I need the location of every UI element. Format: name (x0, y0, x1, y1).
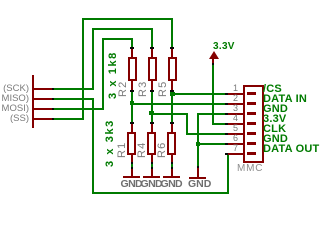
R4 top lead (151, 124, 153, 132)
junction MISO stub/net (52, 98, 54, 100)
node CLK tap (junction dot) (149, 111, 154, 115)
R1 bottom lead (131, 155, 133, 162)
GND4 wire junction (197, 166, 199, 168)
connector MMC pin 1 stub (228, 93, 243, 95)
junction pin4 (225, 123, 228, 125)
wire MOSI riser (inner staple left) (102, 38, 104, 110)
R1 gnd wire (131, 164, 133, 167)
ground bar 4 (189, 177, 206, 179)
junction R3 pin1 (150, 47, 154, 49)
R5 bottom lead (171, 80, 173, 90)
wire MISO horizontal (54, 98, 94, 100)
label (SS) (0, 114, 29, 124)
ground text 3 (161, 180, 183, 189)
value 3 x 1k8 (108, 51, 119, 99)
junction R5 pin1 (170, 47, 174, 49)
R6 top lead (171, 124, 173, 132)
connector pin 4 contact (247, 122, 256, 125)
label MOSI) (0, 104, 29, 114)
wire SCK drop to R3 (151, 28, 153, 48)
pin stub SS (34, 118, 52, 120)
junction R5 pin2 (170, 90, 174, 92)
R4 gnd junction b (151, 167, 153, 169)
wire /CS to pin 1 (171, 93, 225, 95)
ground lead 2 (151, 169, 153, 176)
ground bar 1 (123, 176, 140, 178)
resistor R4 body (147, 132, 156, 155)
wire CLK tap horizontal (151, 113, 188, 115)
R6 top junction (170, 122, 174, 124)
wire CLK to pin 5 (186, 133, 225, 135)
label (SCK) (0, 84, 29, 94)
wire SS drop to R5 (171, 18, 173, 48)
resistor R1 body (127, 132, 136, 155)
wire DATA IN to pin 2 (131, 103, 225, 105)
net label DATA IN (263, 94, 307, 104)
designator R1 (117, 142, 128, 158)
junction pin5 (225, 133, 228, 135)
wire MOSI staple top (102, 38, 133, 40)
wire MOSI drop to R2 (131, 38, 133, 48)
R6 gnd wire (171, 164, 173, 167)
pin number 6 (214, 134, 238, 142)
value 3 x 3k3 (105, 119, 116, 167)
net label GND (pin6) (263, 134, 288, 144)
designator MMC (237, 164, 263, 173)
wire divider chain R3-R4 (151, 92, 153, 123)
R4 gnd wire (151, 164, 153, 167)
junction R3 pin2 (150, 90, 154, 92)
wire SCK staple top (92, 28, 153, 30)
wire MOSI horizontal (54, 108, 104, 110)
ground bar 3 (163, 176, 180, 178)
ground text 2 (141, 180, 163, 189)
wire CLK riser (186, 113, 188, 135)
designator R4 (137, 142, 148, 158)
ground bar 2 (143, 176, 160, 178)
label 3.3V (213, 42, 235, 51)
R6 gnd junction b (171, 167, 173, 169)
wire SCK riser (middle staple left) (92, 28, 94, 90)
wire divider chain R2-R1 (131, 92, 133, 123)
wire MISO drop (loop left) (92, 98, 94, 194)
resistor R6 body (167, 132, 176, 155)
wire 3.3V to pin 4 (212, 123, 225, 125)
wire MISO bottom run (92, 192, 229, 194)
designator R6 (157, 142, 168, 158)
wire 3.3V vertical (212, 65, 214, 125)
ground lead 3 (171, 169, 173, 176)
R1 gnd junction b (131, 167, 133, 169)
ground lead 1 (131, 169, 133, 176)
connector pin 5 contact (247, 132, 256, 135)
resistor R3 body (148, 57, 157, 81)
R6 gnd junction a (171, 162, 173, 164)
supply 3.3V stem (212, 58, 214, 64)
junction pin3 (225, 113, 228, 115)
designator R5 (158, 81, 169, 97)
node /CS tap (junction dot) (170, 92, 175, 96)
resistor R5 body (168, 57, 177, 81)
ground text 1 (121, 180, 143, 189)
pin number 1 (214, 84, 238, 92)
R5 top lead (171, 49, 173, 57)
designator R3 (138, 81, 149, 97)
connector MMC pin 6 stub (228, 143, 243, 145)
pin stub MOSI (34, 108, 52, 110)
node DATA IN tap (junction dot) (130, 101, 134, 105)
junction pin6 (225, 143, 228, 145)
wire SS horizontal (54, 118, 84, 120)
R1 top lead (131, 124, 133, 132)
ground text 4 (188, 180, 211, 189)
net label GND (pin3) (263, 104, 288, 114)
connector MMC pin 7 stub (228, 153, 243, 155)
wire MISO rise to pin 7 (227, 154, 229, 194)
R4 gnd junction a (151, 162, 153, 164)
wire GND vertical (197, 113, 199, 167)
net label 3.3V (pin4) (263, 114, 286, 124)
R4 bottom lead (151, 155, 153, 162)
R1 top junction (130, 122, 134, 124)
R1 gnd junction a (131, 162, 133, 164)
designator R2 (118, 81, 129, 97)
junction pin7 (225, 153, 228, 155)
pin stub MISO (34, 98, 52, 100)
junction 3.3V supply/net (212, 63, 214, 65)
net label CLK (263, 124, 286, 134)
net label DATA OUT (263, 144, 319, 154)
net label /CS (263, 84, 282, 94)
pin number 7 (214, 144, 238, 152)
ground lead 4 (197, 168, 199, 177)
connector pin 6 contact (247, 142, 256, 145)
label MISO) (0, 94, 29, 104)
junction R2 pin2 (130, 90, 134, 92)
wire junctions at connector pins (225, 93, 228, 95)
connector pin 1 contact (247, 92, 256, 95)
wire SCK horizontal (54, 88, 94, 90)
pin number 4 (214, 114, 238, 122)
connector pin 2 contact (247, 102, 256, 105)
junction SCK stub/net (52, 88, 54, 90)
pin number 3 (214, 104, 238, 112)
pin number 2 (214, 94, 238, 102)
connector MMC body (243, 85, 264, 163)
pin number 5 (214, 124, 238, 132)
R2 bottom lead (131, 80, 133, 90)
connector pin 3 contact (247, 112, 256, 115)
junction MOSI stub/net (52, 108, 54, 110)
connector pin 7 contact (247, 152, 256, 155)
node GND pin6 (junction dot) (196, 142, 200, 146)
R4 top junction (150, 122, 154, 124)
wire divider chain R5-R6 (171, 92, 173, 123)
wire GND to pin 3 (197, 113, 225, 115)
junction pin2 (225, 103, 228, 105)
connector MMC pin 5 stub (228, 133, 243, 135)
R3 bottom lead (151, 80, 153, 90)
R2 top lead (131, 49, 133, 57)
connector MMC pin 4 stub (228, 123, 243, 125)
pin stub SCK (34, 88, 52, 90)
wire GND to pin 6 (197, 143, 225, 145)
connector MMC pin 2 stub (228, 103, 243, 105)
left header bar (host connector) (32, 75, 34, 128)
junction R2 pin1 (130, 47, 134, 49)
R6 bottom lead (171, 155, 173, 162)
wire SS riser (outer staple left) (82, 18, 84, 120)
junction SS stub/net (52, 118, 54, 120)
wire SS staple top (82, 18, 173, 20)
resistor R2 body (128, 57, 137, 81)
connector MMC pin 3 stub (228, 113, 243, 115)
R3 top lead (151, 49, 153, 57)
supply 3.3V arrow (209, 51, 219, 59)
